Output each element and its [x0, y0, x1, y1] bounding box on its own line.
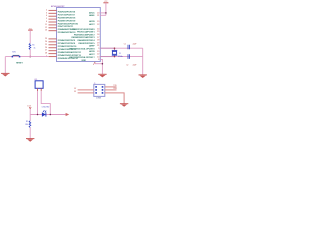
- pin labels group 2: [58, 39, 82, 60]
- LED D1: [42, 110, 46, 117]
- ground J1: [120, 104, 128, 107]
- svg-text:22pF: 22pF: [133, 44, 137, 46]
- wire reset: [5, 56, 48, 58]
- left pins group 1: [49, 10, 57, 30]
- svg-text:22pF: 22pF: [133, 65, 137, 67]
- svg-text:SW1: SW1: [12, 51, 16, 53]
- capacitor C2: [128, 54, 130, 59]
- net terminal 13: [27, 106, 31, 115]
- svg-text:PB2/SS/OC1B/PCINT2: PB2/SS/OC1B/PCINT2: [74, 34, 96, 36]
- pin labels group 1: [58, 12, 79, 34]
- wire XTAL2: [100, 56, 142, 58]
- svg-text:PB1/OC1A/PCINT1: PB1/OC1A/PCINT1: [77, 31, 95, 34]
- svg-text:PB3/MOSI/OC2A/PCINT3: PB3/MOSI/OC2A/PCINT3: [71, 36, 95, 39]
- terminal arrow: [66, 113, 70, 116]
- svg-text:R2: R2: [26, 121, 28, 123]
- op-amp U1: [57, 8, 101, 62]
- node junction: [105, 12, 107, 14]
- crystal X1: [112, 47, 117, 57]
- wire J1 right 2: [105, 89, 117, 91]
- svg-text:ADC7: ADC7: [89, 53, 95, 56]
- right pin labels top: [89, 12, 100, 26]
- svg-text:1k: 1k: [34, 47, 36, 49]
- wire J1 left 2: [78, 92, 94, 94]
- wire J1 right 3 (to gnd): [105, 93, 124, 104]
- svg-text:3: 3: [46, 12, 47, 14]
- svg-text:PC0/ADC0/PCINT8: PC0/ADC0/PCINT8: [58, 39, 76, 42]
- svg-text:13: 13: [45, 30, 47, 32]
- wire AREF: [100, 14, 106, 16]
- node gnd junction: [102, 63, 104, 64]
- svg-text:330: 330: [25, 124, 28, 126]
- wire bottom gnd: [95, 63, 103, 65]
- svg-text:24: 24: [45, 41, 47, 43]
- svg-text:PD3/INT1/PCINT19: PD3/INT1/PCINT19: [58, 20, 76, 22]
- pin GND bottom stub: [94, 62, 96, 64]
- button: [12, 51, 21, 57]
- svg-text:PB5/SCK/PCINT5: PB5/SCK/PCINT5: [78, 43, 95, 45]
- svg-text:PD2/INT0/PCINT18: PD2/INT0/PCINT18: [58, 17, 76, 19]
- svg-text:PB0/ICP1/CLKO/PCINT0: PB0/ICP1/CLKO/PCINT0: [72, 29, 95, 31]
- wire A: [37, 91, 39, 115]
- svg-text:2: 2: [46, 9, 47, 11]
- left pins group 2: [49, 39, 57, 57]
- wire xtal bus: [142, 48, 144, 75]
- node reset junction: [29, 56, 31, 58]
- svg-text:C2: C2: [126, 65, 128, 67]
- svg-text:12: 12: [45, 27, 47, 29]
- svg-text:RESET: RESET: [16, 62, 23, 64]
- svg-text:PB7/TOSC2/XTAL2/PCINT7: PB7/TOSC2/XTAL2/PCINT7: [69, 56, 95, 59]
- ground xtal: [139, 75, 147, 78]
- ground mcu: [98, 74, 106, 77]
- pin numbers group 2: [45, 38, 47, 58]
- resistor R1: [29, 43, 31, 49]
- svg-text:R1: R1: [32, 44, 34, 46]
- wire XTAL1: [100, 47, 142, 49]
- svg-text:LED-RED: LED-RED: [42, 106, 50, 108]
- pin stubs LS1: [37, 88, 39, 91]
- svg-text:PB6/TOSC1/XTAL1/PCINT6: PB6/TOSC1/XTAL1/PCINT6: [69, 47, 95, 50]
- svg-text:6: 6: [46, 21, 47, 23]
- wire J1 left 1: [78, 89, 94, 91]
- wire R2 gnd: [29, 128, 31, 139]
- right pin labels main: [69, 28, 100, 61]
- svg-text:23: 23: [45, 38, 47, 40]
- ground R2: [26, 139, 34, 142]
- wire led: [30, 114, 66, 116]
- svg-text:AREF: AREF: [89, 45, 95, 48]
- capacitor C1: [128, 45, 130, 50]
- resistor R2: [29, 115, 31, 121]
- wire AVCC: [100, 12, 106, 14]
- svg-text:D13: D13: [27, 106, 30, 108]
- svg-text:PD1/TXD/PCINT17: PD1/TXD/PCINT17: [58, 15, 76, 17]
- svg-text:16MHz: 16MHz: [118, 56, 124, 58]
- svg-text:8: 8: [93, 64, 94, 66]
- svg-text:4: 4: [46, 15, 47, 17]
- power VCC top right: [103, 1, 108, 15]
- wire R1 bottom: [29, 50, 31, 57]
- wire B: [41, 91, 50, 115]
- svg-text:25: 25: [45, 44, 47, 46]
- svg-text:26: 26: [45, 47, 47, 49]
- svg-text:PB4/MISO/PCINT4: PB4/MISO/PCINT4: [77, 40, 95, 42]
- svg-text:AREF: AREF: [89, 14, 95, 17]
- svg-text:28: 28: [45, 53, 47, 55]
- wire reset gnd: [4, 57, 6, 74]
- svg-text:5: 5: [46, 18, 47, 20]
- svg-text:GND: GND: [82, 60, 87, 62]
- svg-text:ADC6: ADC6: [89, 20, 95, 23]
- svg-text:X1: X1: [119, 53, 121, 55]
- svg-text:CONN: CONN: [96, 98, 102, 100]
- wire GND pin: [100, 59, 102, 74]
- svg-text:11: 11: [45, 24, 47, 26]
- svg-text:PD0/RXD/PCINT16: PD0/RXD/PCINT16: [58, 12, 76, 14]
- svg-text:27: 27: [45, 50, 47, 52]
- pin numbers group 1: [45, 9, 47, 31]
- svg-text:C1: C1: [124, 43, 126, 45]
- svg-text:PC1/ADC1/PCINT9: PC1/ADC1/PCINT9: [58, 42, 76, 45]
- wire J1 right 1: [105, 86, 117, 88]
- ground reset: [1, 73, 9, 76]
- power VCC left: [28, 28, 33, 43]
- svg-text:ADC6: ADC6: [89, 50, 95, 53]
- svg-text:PC4/ADC4/SDA/PCINT12: PC4/ADC4/SDA/PCINT12: [58, 51, 82, 54]
- svg-text:PD4/T0/XCK/PCINT20: PD4/T0/XCK/PCINT20: [58, 23, 79, 25]
- svg-text:ATMEGA328P: ATMEGA328P: [51, 5, 65, 8]
- svg-text:ADC7: ADC7: [89, 23, 95, 26]
